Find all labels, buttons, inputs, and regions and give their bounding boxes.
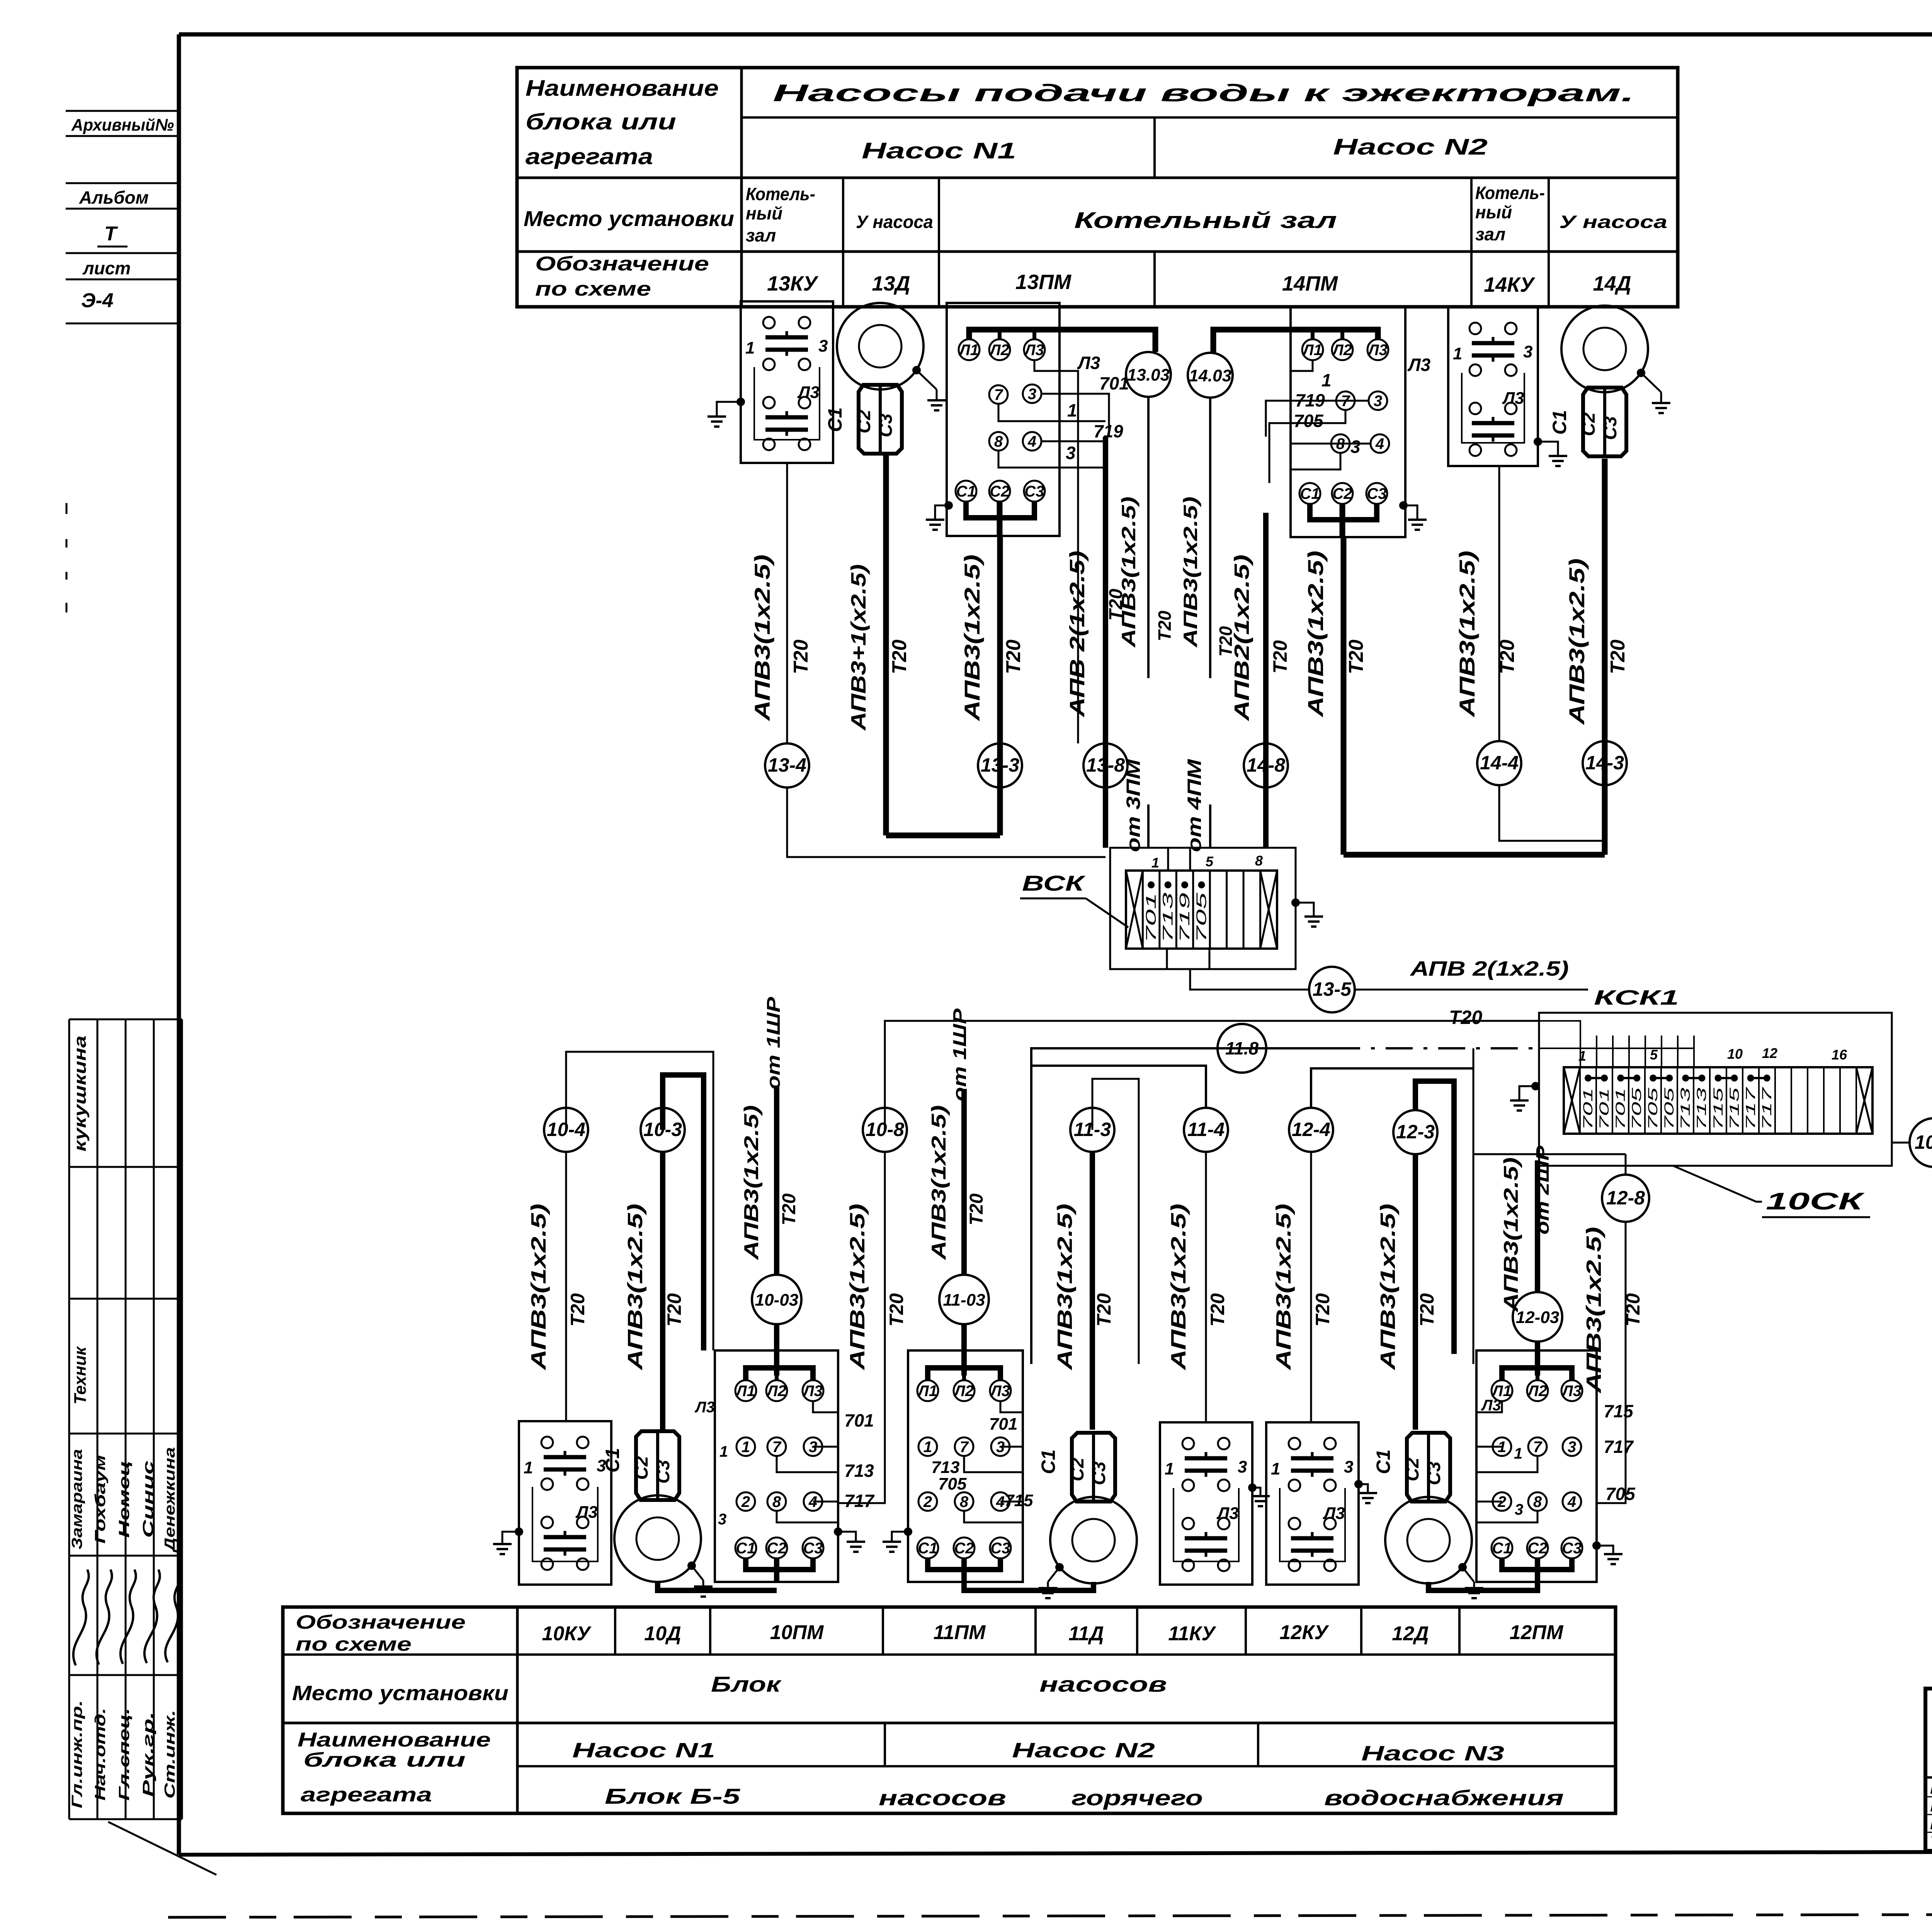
wire 14КУ down [1498,466,1500,741]
bridge 11-3 to 11ПМ [1092,1079,1139,1364]
svg-text:13-3: 13-3 [981,754,1019,776]
cable АПВ3 below 12-3 [1376,1154,1438,1430]
node 13-4 [765,743,809,787]
svg-text:Т20: Т20 [1496,639,1519,674]
motor 13Д [824,303,946,454]
wire below 13-4 [787,787,1105,857]
wire 12-03 to 12ПМ [1535,1342,1540,1376]
svg-text:Т20: Т20 [663,1293,685,1327]
svg-text:Обозначение: Обозначение [296,1611,466,1633]
svg-text:Ст.инж.: Ст.инж. [162,1710,178,1799]
svg-text:С3: С3 [803,1540,823,1557]
svg-text:С1: С1 [918,1540,937,1557]
svg-text:1: 1 [1514,1445,1522,1462]
svg-text:11-4: 11-4 [1187,1119,1225,1140]
labels at 10ПМ [694,1399,875,1528]
svg-text:14ПМ: 14ПМ [1282,272,1338,295]
svg-text:14-4: 14-4 [1480,752,1519,774]
cable АПВ3 below 11-4 [1167,1152,1228,1422]
svg-text:3: 3 [1350,437,1361,457]
svg-text:Л3: Л3 [1323,1504,1345,1523]
svg-text:1: 1 [719,1443,728,1460]
svg-text:Гл.инж.пр.: Гл.инж.пр. [69,1700,85,1808]
svg-text:горячего: горячего [1071,1786,1203,1810]
node 12-03 [1513,1292,1562,1342]
node 13-8 [1083,743,1128,787]
ground at ВСК [1291,898,1323,927]
title block org texts [1931,1699,1932,1779]
svg-text:5: 5 [1650,1047,1658,1063]
svg-text:Блок: Блок [711,1672,782,1696]
left edge tick marks [66,503,68,612]
node 10-8 [863,1108,907,1152]
svg-text:3: 3 [1568,1439,1576,1456]
pushbutton station 14КУ [1448,307,1538,466]
svg-text:14-8: 14-8 [1247,754,1285,776]
svg-text:С1: С1 [736,1540,755,1557]
labels at 12ПМ [1481,1397,1636,1518]
svg-text:С1: С1 [824,407,846,432]
label cable 13.03 [1118,497,1175,648]
svg-text:701: 701 [1581,1088,1595,1130]
node 10-03 [752,1275,801,1324]
svg-text:11КУ: 11КУ [1168,1622,1216,1645]
svg-text:Т20: Т20 [1093,1293,1115,1327]
svg-text:Л1: Л1 [917,1383,937,1400]
svg-text:13-8: 13-8 [1086,754,1125,776]
svg-text:3: 3 [1515,1501,1523,1518]
svg-text:С3: С3 [1024,483,1044,500]
svg-text:кукушкина: кукушкина [71,1036,90,1151]
svg-text:701: 701 [1143,893,1159,943]
svg-text:Л3: Л3 [1077,353,1100,373]
ground at 10ПМ [834,1527,865,1552]
cable АПВ2 to node 13-8 [1066,437,1126,848]
cable от 1ШР to 10-03 [740,997,799,1275]
svg-text:1: 1 [745,338,755,357]
label cable 14.03 [1180,497,1236,657]
cable от 1ШР to 11-03 [928,1008,987,1275]
contactor box 10ПМ [715,1350,838,1582]
svg-text:Нач.отд.: Нач.отд. [92,1708,109,1801]
sidebar label Архивный № [66,111,179,136]
svg-text:10-5: 10-5 [1915,1131,1932,1153]
svg-text:по схеме: по схеме [296,1633,412,1655]
svg-text:Л2: Л2 [953,1383,974,1400]
svg-text:АПВ3(1х2.5): АПВ3(1х2.5) [1303,551,1328,718]
svg-text:11-03: 11-03 [943,1291,985,1310]
svg-text:от 4ПМ: от 4ПМ [1184,759,1205,852]
cable АПВ3 below 10-3 [624,1152,685,1430]
ground at 14КУ [1534,437,1567,466]
wire from 13.03 down [1147,397,1150,678]
svg-text:Т: Т [104,223,118,245]
title block object texts [1925,1781,1932,1850]
contactor box 12ПМ [1476,1350,1597,1582]
svg-text:713: 713 [1694,1088,1709,1130]
svg-text:С2: С2 [1067,1458,1088,1481]
bottom dashed trim line [168,1913,1932,1917]
top table texts [524,76,1667,300]
svg-text:8: 8 [994,433,1003,450]
svg-text:блока или: блока или [303,1749,466,1771]
svg-text:Немец: Немец [116,1461,133,1538]
svg-text:С1: С1 [956,483,976,500]
svg-text:705: 705 [1605,1484,1636,1504]
svg-text:Котельная с 4 водогрейными: Котельная с 4 водогрейными [1930,1781,1932,1797]
svg-text:агрегата: агрегата [526,144,653,169]
svg-text:Т20: Т20 [1345,639,1367,674]
svg-text:Т20: Т20 [886,1293,907,1327]
svg-text:АПВ 2(1х2.5): АПВ 2(1х2.5) [1066,551,1089,718]
svg-text:705: 705 [1662,1088,1677,1130]
cable АПВ3 below 10-4 [527,1152,588,1421]
svg-text:701: 701 [989,1415,1017,1434]
svg-text:Насос N3: Насос N3 [1361,1742,1504,1765]
svg-text:котлами „Универсал-6М": котлами „Универсал-6М" [1930,1798,1932,1815]
terminal box ВСК [1110,848,1296,969]
svg-text:Л2: Л2 [1332,342,1352,359]
svg-text:АПВ3(1х2.5): АПВ3(1х2.5) [1053,1204,1077,1371]
svg-text:С2: С2 [954,1540,974,1557]
sidebar label Альбом Т [66,183,179,247]
svg-text:Насос N1: Насос N1 [862,138,1016,163]
svg-text:Л2: Л2 [989,342,1009,359]
svg-text:Денежкина: Денежкина [162,1447,178,1553]
svg-text:С1: С1 [1037,1449,1059,1474]
svg-text:3: 3 [1374,393,1382,410]
svg-text:Рук.гр.: Рук.гр. [140,1712,156,1797]
node 14-8 [1244,743,1288,787]
svg-text:705: 705 [938,1475,967,1493]
bridge 11-4 [1032,1066,1206,1108]
wire bundle 14ПМ left [1266,401,1291,483]
svg-text:Насос N2: Насос N2 [1333,134,1488,160]
svg-text:АПВ3(1х2.5): АПВ3(1х2.5) [1376,1204,1400,1371]
svg-text:Гохбаум: Гохбаум [92,1455,109,1544]
node 14-3 [1583,741,1627,785]
svg-text:насосов: насосов [1039,1672,1167,1696]
cable from 14ПМ С2 down [1303,537,1367,855]
ground at 13КУ [707,398,745,427]
bridge 12-4 [1311,1068,1473,1108]
svg-text:С2: С2 [1332,485,1352,502]
svg-text:12КУ: 12КУ [1279,1621,1329,1644]
svg-text:С3: С3 [1600,416,1621,440]
svg-text:Т20: Т20 [1449,1007,1482,1028]
svg-text:717: 717 [1743,1087,1758,1130]
bottom bus wires [658,1582,1537,1590]
svg-text:1: 1 [1453,344,1462,363]
svg-text:С1: С1 [1300,485,1320,502]
svg-text:713: 713 [1678,1088,1693,1130]
svg-text:2: 2 [741,1493,750,1510]
svg-text:АПВ3(1х2.5): АПВ3(1х2.5) [1455,551,1479,718]
wire from 11.8 bus down [1473,1048,1475,1364]
svg-text:11ПМ: 11ПМ [934,1621,986,1644]
svg-text:13КУ: 13КУ [767,272,818,295]
cable АПВ3 to node 14-4 [1455,551,1519,718]
svg-text:АПВ3(1х2.5): АПВ3(1х2.5) [846,1204,869,1371]
svg-text:Насосы подачи воды к эже: Насосы подачи воды к эжекторам. [773,80,1634,107]
svg-text:АПВ3+1(х2.5): АПВ3+1(х2.5) [847,564,870,731]
svg-text:АПВ3(1х2.5): АПВ3(1х2.5) [624,1204,647,1371]
svg-text:С3: С3 [1562,1540,1582,1557]
svg-text:Т20: Т20 [1269,640,1291,673]
bottom table texts [292,1611,1564,1810]
svg-text:Т20: Т20 [790,639,812,674]
node 10-4 [544,1108,588,1152]
cable АПВ3 below 10-8 [838,1152,907,1503]
ground at 14ПМ [1399,501,1427,530]
wire below 14-4 [1499,785,1605,841]
cable АПВ3 below 11-3 [1053,1152,1115,1430]
wire motor to 13-3 link [886,833,1000,838]
svg-text:701: 701 [844,1410,874,1430]
svg-text:713: 713 [931,1458,959,1477]
svg-text:зал: зал [1475,224,1505,244]
svg-text:АПВ3(1х2.5): АПВ3(1х2.5) [527,1204,550,1371]
signature table texts [69,1036,178,1808]
svg-text:С3: С3 [1089,1461,1109,1485]
svg-text:1: 1 [1271,1459,1280,1478]
wire bundle 13ПМ right [1060,371,1109,743]
motor 12Д [1372,1433,1483,1598]
svg-text:ВСК: ВСК [1022,871,1086,895]
svg-text:Л2: Л2 [1527,1383,1547,1400]
ground at 13ПМ [926,501,953,530]
svg-text:С2: С2 [854,410,874,434]
cable АПВ3 to node 13-3 [960,536,1025,835]
svg-text:Л3: Л3 [802,1383,823,1400]
node 13-5 [1309,967,1355,1012]
svg-text:Наименование: Наименование [526,76,719,101]
svg-text:АПВ3(1х2.5): АПВ3(1х2.5) [740,1105,763,1261]
labels at 14ПМ left [1294,355,1431,457]
svg-text:Л1: Л1 [735,1383,755,1400]
svg-text:Л3: Л3 [575,1503,598,1522]
svg-text:АПВ3(1х2.5): АПВ3(1х2.5) [1118,497,1139,648]
svg-text:12: 12 [1762,1045,1777,1061]
svg-text:7: 7 [1533,1439,1543,1456]
svg-text:715: 715 [1005,1491,1033,1510]
ground at 11ПМ left [883,1527,912,1552]
svg-text:Т20: Т20 [567,1293,588,1327]
svg-text:Замараина: Замараина [69,1449,85,1549]
sidebar label лист Э-4 [66,253,179,323]
svg-text:10КУ: 10КУ [542,1622,592,1645]
svg-text:Т20: Т20 [966,1193,987,1225]
ground at 12ПМ [1592,1541,1622,1564]
svg-text:12-3: 12-3 [1396,1121,1435,1143]
pushbutton station 10КУ [519,1421,611,1585]
svg-text:5: 5 [1206,854,1214,869]
svg-text:АПВ3(1х2.5): АПВ3(1х2.5) [1272,1204,1295,1371]
svg-text:Т20: Т20 [888,639,911,674]
svg-text:С3: С3 [990,1540,1010,1557]
svg-text:715: 715 [1711,1088,1726,1130]
cable АПВ2 to node 14-8 [1230,513,1291,848]
svg-text:705: 705 [1646,1088,1660,1130]
wire 11.8 bus [1031,1048,1333,1364]
svg-text:Т20: Т20 [1607,639,1629,674]
svg-text:1: 1 [1151,855,1159,871]
svg-text:С2: С2 [631,1456,652,1480]
svg-text:11.8: 11.8 [1225,1038,1259,1058]
svg-text:Архивный№: Архивный№ [71,116,174,134]
svg-text:717: 717 [1760,1087,1774,1130]
corner diagonal [108,1822,216,1875]
svg-text:Обозначение: Обозначение [535,253,709,275]
svg-text:14Д: 14Д [1593,272,1631,295]
svg-text:от 1ШР: от 1ШР [950,1008,970,1101]
svg-text:С3: С3 [653,1460,673,1484]
svg-text:12ПМ: 12ПМ [1510,1621,1564,1644]
svg-text:Л3: Л3 [1502,389,1524,408]
pushbutton station 13КУ [741,301,833,463]
svg-text:Э-4: Э-4 [81,289,114,312]
svg-text:С1: С1 [1372,1449,1394,1474]
svg-text:Л3: Л3 [1561,1383,1582,1400]
cable АПВ3 below 12-4 [1272,1152,1333,1422]
svg-text:3: 3 [1523,342,1532,361]
svg-text:713: 713 [844,1461,874,1481]
svg-text:11Д: 11Д [1068,1622,1104,1645]
svg-text:поверхностью нагрева по 41.8м: поверхностью нагрева по 41.8м [1930,1816,1932,1833]
svg-text:717: 717 [844,1491,875,1511]
svg-text:Т20: Т20 [1155,611,1175,641]
svg-text:ный: ный [746,203,782,223]
svg-text:Техник: Техник [71,1346,90,1405]
svg-text:Л2: Л2 [766,1383,786,1400]
svg-text:С2: С2 [1402,1458,1423,1481]
label ВСК [1020,871,1128,927]
svg-text:13.03: 13.03 [1127,366,1170,384]
svg-text:3: 3 [818,337,828,355]
svg-text:АПВ3(1х2.5): АПВ3(1х2.5) [1180,497,1201,648]
svg-text:Место установки: Место установки [292,1682,509,1705]
svg-text:10СК: 10СК [1766,1188,1865,1215]
svg-text:С3: С3 [1424,1461,1444,1485]
svg-text:7: 7 [772,1439,782,1456]
svg-text:2: 2 [923,1493,932,1510]
label 10СК [1673,1166,1870,1217]
labels at 13ПМ right [1066,353,1129,463]
node 10-5 [1910,1118,1932,1167]
contactor box 11ПМ [908,1350,1023,1582]
cable from motor 13Д down [847,454,911,835]
svg-text:блока или: блока или [526,109,676,134]
svg-text:Л3: Л3 [1216,1504,1239,1523]
wire ВСК to node 13-5 [1190,969,1309,990]
svg-text:12-8: 12-8 [1606,1187,1645,1209]
bridge 10-4 to 10ПМ [566,1052,713,1350]
svg-text:4: 4 [1567,1493,1576,1510]
svg-text:719: 719 [1177,893,1192,943]
svg-text:8: 8 [1533,1493,1542,1510]
wire 10СК to node 10-5 [1892,1142,1910,1144]
svg-text:АПВ3(1х2.5): АПВ3(1х2.5) [1167,1204,1190,1371]
svg-text:14КУ: 14КУ [1484,273,1535,296]
svg-text:С1: С1 [1549,410,1570,435]
svg-text:ный: ный [1475,202,1512,222]
pushbutton station 12КУ [1266,1422,1359,1585]
node 14.03 [1188,353,1233,398]
svg-text:701: 701 [1613,1088,1628,1130]
svg-text:Л3: Л3 [990,1383,1010,1400]
wire 13КУ down [786,463,788,743]
wire from 14.03 down [1209,398,1211,678]
node 12-4 [1289,1108,1333,1152]
svg-text:Т20: Т20 [1622,1293,1644,1327]
svg-text:лист: лист [82,258,131,278]
svg-text:Котель-: Котель- [1475,183,1545,203]
svg-text:4: 4 [1375,435,1384,452]
top table grid [517,68,1678,307]
svg-text:705: 705 [1629,1088,1644,1130]
svg-text:Т20: Т20 [1312,1293,1333,1327]
svg-text:Насос N1: Насос N1 [572,1739,715,1762]
svg-text:705: 705 [1194,892,1209,943]
node 13-3 [978,743,1022,787]
svg-text:С2: С2 [767,1540,786,1557]
svg-text:агрегата: агрегата [301,1784,432,1806]
svg-text:10-8: 10-8 [866,1119,904,1140]
svg-text:С1: С1 [1492,1540,1512,1557]
svg-text:Т20: Т20 [1416,1293,1438,1327]
svg-text:13Д: 13Д [872,272,910,295]
svg-text:717: 717 [1604,1437,1634,1457]
svg-text:Гл.спец.: Гл.спец. [116,1708,133,1801]
svg-text:719: 719 [1295,390,1325,410]
node 14-4 [1477,741,1521,785]
svg-text:зал: зал [746,225,776,245]
svg-text:Место установки: Место установки [524,206,734,231]
svg-text:АПВ3(1х2.5): АПВ3(1х2.5) [960,554,984,722]
svg-text:7: 7 [994,386,1003,403]
svg-text:1: 1 [923,1439,932,1456]
svg-text:АПВ 2(1х2.5): АПВ 2(1х2.5) [1410,957,1569,980]
svg-text:12Д: 12Д [1392,1622,1429,1645]
svg-text:Синис: Синис [140,1461,156,1538]
pushbutton station 11КУ [1160,1422,1252,1585]
svg-text:8: 8 [960,1493,969,1510]
link 14ПМ to 14Д bottom [1344,852,1605,858]
svg-text:701: 701 [1099,373,1129,393]
svg-text:Л1: Л1 [1302,342,1322,359]
svg-text:С3: С3 [876,413,896,437]
svg-text:от 3ПМ: от 3ПМ [1122,759,1144,852]
svg-text:1: 1 [742,1439,750,1456]
svg-text:АПВ3(1х2.5): АПВ3(1х2.5) [1500,1157,1522,1313]
svg-text:715: 715 [1604,1401,1634,1421]
contactor box 13ПМ [947,303,1155,536]
svg-text:4: 4 [1027,433,1036,450]
svg-text:Л3: Л3 [1407,355,1431,375]
svg-text:Л3: Л3 [1367,342,1388,359]
cable АПВ3 to node 13-4 [750,554,812,722]
svg-text:14-3: 14-3 [1585,752,1624,774]
svg-text:14.03: 14.03 [1189,366,1231,385]
svg-text:10: 10 [1727,1046,1743,1062]
svg-text:от 1ШР: от 1ШР [764,997,784,1090]
svg-text:АПВ3(1х2.5): АПВ3(1х2.5) [750,554,774,722]
svg-text:3: 3 [1066,443,1076,463]
svg-text:Котельный зал: Котельный зал [1074,208,1337,233]
svg-text:Л1: Л1 [958,342,979,359]
svg-text:Блок Б-5: Блок Б-5 [605,1784,740,1808]
svg-text:водоснабжения: водоснабжения [1324,1786,1564,1810]
